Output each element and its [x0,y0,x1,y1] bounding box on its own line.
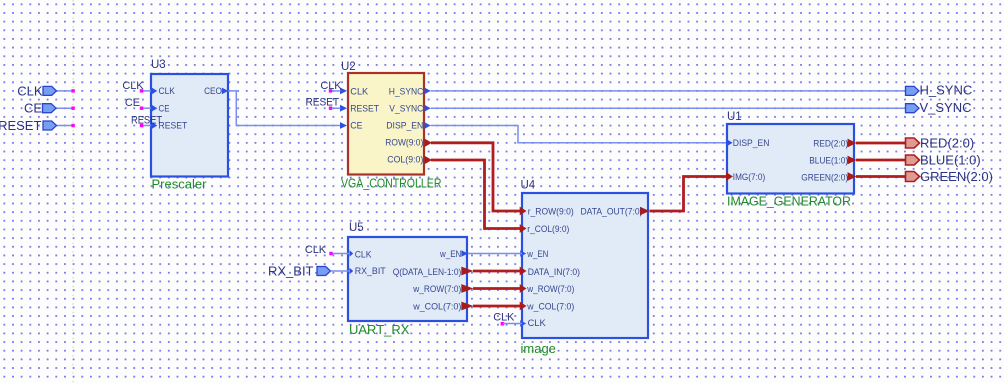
svg-text:U5: U5 [349,222,364,234]
wire RESET port stub [57,125,73,127]
pin U1 RED(2:0) output [813,138,856,148]
svg-text:DISP_EN: DISP_EN [386,120,423,130]
wire U3 CE stub [143,107,151,109]
node U2 RESET dot [329,107,332,110]
block U4 image [522,193,648,338]
svg-text:U3: U3 [151,59,166,71]
port CE input pentagon [43,104,57,113]
svg-text:V_SYNC: V_SYNC [920,100,972,115]
svg-text:RESET: RESET [159,121,188,131]
port RED(2:0) pentagon [906,138,920,148]
svg-text:BLUE(1:0): BLUE(1:0) [920,152,981,167]
svg-text:Q(DATA_LEN-1:0): Q(DATA_LEN-1:0) [393,267,462,277]
block U2 VGA_CONTROLLER [348,73,424,175]
svg-text:U4: U4 [521,180,536,192]
wire H_SYNC net [431,90,906,92]
node RESET dangling dot [71,124,74,127]
node CE dangling dot [71,107,74,110]
bus ROW(9:0) U2 to U4 [431,143,522,211]
wire RX_BIT stub [331,270,350,272]
svg-text:RX_BIT: RX_BIT [268,264,314,279]
wire w_EN U5 to U4 [468,253,522,255]
pin U3 CEO output [204,86,228,96]
svg-text:CE: CE [24,101,42,116]
bus w_ROW U5 to U4 [473,287,521,290]
svg-text:CLK: CLK [350,86,368,96]
svg-text:RED(2:0): RED(2:0) [920,135,974,150]
wire V_SYNC net [431,107,906,109]
pin U4 w_EN [520,249,548,259]
svg-text:GREEN(2:0): GREEN(2:0) [801,173,848,183]
pin U2 CE [340,120,363,130]
svg-text:Prescaler: Prescaler [152,177,208,192]
node U3 CE dot [140,107,143,110]
block U5 UART_RX [348,237,467,321]
svg-text:r_COL(9:0): r_COL(9:0) [527,224,569,234]
wire U5 CLK stub [333,253,350,255]
svg-text:RESET: RESET [306,96,340,108]
pin U2 RESET [340,103,379,113]
pin U4 r_COL(9:0) [520,224,570,234]
pin U2 V_SYNC output [389,103,430,113]
svg-text:r_ROW(9:0): r_ROW(9:0) [528,207,574,217]
svg-text:H_SYNC: H_SYNC [920,83,973,98]
port GREEN(2:0) pentagon [906,172,920,182]
pin U2 CLK [340,86,368,96]
svg-text:DATA_IN(7:0): DATA_IN(7:0) [528,267,580,277]
svg-text:image: image [521,341,556,356]
pin U4 DATA_OUT(7:0) output [581,207,650,217]
svg-text:U1: U1 [727,111,742,123]
pin U5 w_ROW(7:0) output [412,284,473,294]
node U3 RESET dot [140,124,143,127]
wire CE port stub [56,107,73,109]
svg-text:IMG(7:0): IMG(7:0) [733,172,765,182]
bus RED out [856,142,906,145]
pin U4 w_COL(7:0) [520,302,575,312]
pin U1 GREEN(2:0) output [801,172,856,183]
svg-text:RED(2:0): RED(2:0) [813,138,848,148]
svg-text:w_COL(7:0): w_COL(7:0) [526,302,574,312]
svg-text:DATA_OUT(7:0): DATA_OUT(7:0) [581,207,643,217]
svg-text:CLK: CLK [528,318,546,328]
pin U5 Q(DATA_LEN-1:0) output [393,267,474,277]
wire U2 CLK stub [332,90,341,92]
svg-text:w_EN: w_EN [526,249,548,259]
svg-text:CE: CE [159,103,170,113]
bus COL(9:0) U2 to U4 [431,160,522,229]
port RX_BIT input pentagon [317,267,331,276]
svg-text:U2: U2 [341,61,356,73]
pin U4 r_ROW(9:0) [520,207,574,217]
wire U4 CLK stub [503,323,522,325]
svg-text:RESET: RESET [350,103,379,113]
pin U3 CE [152,103,170,113]
pin U5 RX_BIT [350,266,387,276]
svg-text:UART_RX: UART_RX [349,322,410,337]
port V_SYNC output pentagon [906,104,920,113]
pin U4 CLK [520,318,546,328]
port CLK input pentagon [43,86,57,95]
pin U2 COL(9:0) output [387,155,432,165]
node U4 CLK dot [501,322,505,326]
node U3 CLK dot [140,89,143,92]
pin U5 w_EN output [439,249,468,259]
svg-text:w_EN: w_EN [439,249,461,259]
wire U3 CEO to U2 CE [228,91,341,126]
bus w_COL U5 to U4 [473,305,521,308]
bus DATA_OUT U4 to U1 IMG [650,177,727,212]
pin U1 DISP_EN [727,138,770,148]
bus BLUE out [856,159,906,162]
wire DISP_EN net [431,126,728,143]
pin U4 DATA_IN(7:0) [520,267,580,278]
block U1 IMAGE_GENERATOR [727,124,854,194]
svg-text:IMAGE_GENERATOR: IMAGE_GENERATOR [727,194,851,209]
bus GREEN out [856,175,906,178]
svg-text:CLK: CLK [305,244,327,256]
svg-text:ROW(9:0): ROW(9:0) [385,137,423,147]
svg-text:H_SYNC: H_SYNC [389,86,424,96]
svg-text:DISP_EN: DISP_EN [733,138,770,148]
pin U2 H_SYNC output [389,86,431,96]
svg-text:CE: CE [350,120,362,130]
svg-text:COL(9:0): COL(9:0) [387,155,423,165]
svg-text:CLK: CLK [159,86,175,96]
port H_SYNC output pentagon [906,86,920,95]
wire U3 RESET stub [143,125,151,127]
svg-text:GREEN(2:0): GREEN(2:0) [920,169,993,184]
svg-text:BLUE(1:0): BLUE(1:0) [809,156,848,166]
pin U5 CLK [350,250,372,260]
pin U2 DISP_EN output [386,120,430,130]
svg-text:CLK: CLK [17,83,43,98]
pin U5 w_COL(7:0) output [412,301,473,311]
svg-text:w_COL(7:0): w_COL(7:0) [412,301,461,311]
port BLUE(1:0) pentagon [906,155,920,165]
pin U1 BLUE(1:0) output [809,156,856,166]
port RESET input pentagon [43,121,57,130]
svg-text:RX_BIT: RX_BIT [355,266,386,276]
wire U2 RESET stub [332,107,341,109]
svg-text:RESET: RESET [0,118,41,133]
wire U3 CLK stub [143,90,151,92]
svg-text:V_SYNC: V_SYNC [389,103,423,113]
svg-text:w_ROW(7:0): w_ROW(7:0) [412,284,461,294]
bus DATA_IN U5 Q to U4 [473,270,521,273]
svg-text:w_ROW(7:0): w_ROW(7:0) [526,284,574,294]
svg-text:CEO: CEO [204,86,222,96]
pin U2 ROW(9:0) output [385,137,432,147]
sheet boundary dashed line [72,0,74,383]
node CLK dangling dot [71,89,74,92]
svg-text:RESET: RESET [131,114,162,126]
pin U4 w_ROW(7:0) [520,284,575,294]
svg-text:VGA_CONTROLLER: VGA_CONTROLLER [341,175,442,190]
svg-text:CLK: CLK [355,250,372,260]
pin U3 RESET [152,121,188,131]
node U5 CLK dot [329,252,332,255]
block U3 Prescaler [151,74,228,177]
node U2 CLK dot [329,89,332,92]
svg-text:CLK: CLK [122,80,144,92]
svg-text:CLK: CLK [493,311,515,323]
pin U1 IMG(7:0) [726,172,765,182]
pin U3 CLK [152,86,175,96]
wire CLK port stub [56,90,73,92]
svg-text:CE: CE [125,97,140,109]
